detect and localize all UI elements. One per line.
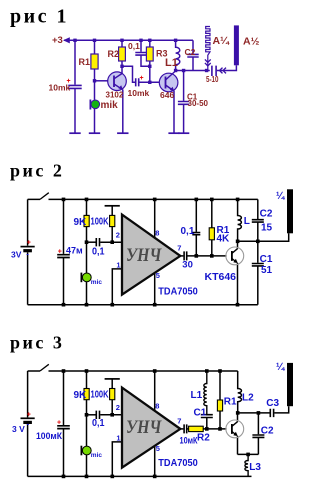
wire R1 top fig3 — [219, 371, 221, 400]
wire base KT646 fig2 — [187, 255, 226, 257]
wire R1 bottom to base node — [94, 69, 96, 81]
junction dots fig3 — [62, 369, 261, 478]
wire R1 top fig2 — [211, 199, 213, 227]
svg-text:0,1: 0,1 — [181, 226, 195, 237]
wire 10mk branch top — [74, 40, 76, 84]
svg-text:4K: 4K — [217, 234, 231, 245]
svg-text:C2: C2 — [260, 209, 273, 220]
wire C1 bottom — [183, 104, 185, 133]
svg-text:C1: C1 — [260, 254, 273, 265]
inductor L3 fig3 — [245, 454, 248, 476]
capacitor 10mk coupling plates — [136, 78, 139, 86]
svg-text:7: 7 — [177, 417, 181, 426]
switch fig2 — [40, 193, 49, 200]
capacitor 0,1 input plates — [96, 238, 99, 246]
capacitor C2 plates fig3 — [252, 435, 264, 437]
svg-text:8: 8 — [155, 229, 159, 238]
svg-text:8: 8 — [155, 402, 159, 411]
wire 100K top fig3 — [111, 379, 113, 389]
resistor R3 — [146, 47, 153, 61]
svg-text:TDA7050: TDA7050 — [158, 286, 198, 298]
svg-text:R1: R1 — [79, 57, 91, 67]
svg-text:A¼: A¼ — [213, 35, 231, 47]
svg-text:R2: R2 — [197, 432, 210, 443]
svg-text:R2: R2 — [108, 49, 120, 59]
wire C1 to base fig3 — [206, 418, 208, 429]
capacitor C1 plates — [178, 102, 189, 105]
wire input left fig3 — [87, 414, 96, 416]
svg-text:100K: 100K — [91, 217, 110, 228]
junction dots fig1 — [73, 39, 208, 84]
ground 10mk — [69, 132, 80, 134]
wire 10mk branch bottom — [74, 88, 76, 133]
svg-text:1: 1 — [116, 433, 120, 442]
capacitor C2 plates — [187, 54, 198, 57]
svg-text:+: + — [27, 411, 31, 418]
battery 3V fig3 — [21, 417, 35, 419]
wire mic bottom — [86, 282, 88, 305]
wire battery bottom fig3 — [27, 424, 29, 476]
transistor Q1 3102 — [108, 72, 127, 91]
wire battery bottom — [27, 252, 29, 304]
svg-text:3V: 3V — [11, 249, 22, 259]
wire R2 top — [121, 40, 123, 47]
capacitor 100mk plates — [57, 426, 70, 429]
svg-text:+: + — [140, 75, 144, 82]
wire C3 to antenna fig3 — [274, 406, 288, 413]
wire node fig3 — [238, 412, 270, 414]
svg-text:УНЧ: УНЧ — [126, 245, 162, 265]
svg-text:646: 646 — [160, 90, 174, 100]
svg-text:30: 30 — [182, 260, 193, 271]
svg-text:30-50: 30-50 — [188, 99, 209, 108]
battery 3V — [21, 246, 35, 248]
ground Q2 emitter — [168, 132, 179, 134]
wire KT646 collector fig2 — [237, 241, 239, 248]
resistor R1 — [91, 54, 98, 69]
svg-text:рис 1: рис 1 — [10, 6, 69, 28]
wire 0,1 right top — [195, 199, 197, 232]
svg-text:¼: ¼ — [276, 191, 285, 202]
wire C2 from rail — [192, 40, 194, 54]
antenna quarter bar fig3 — [287, 363, 293, 406]
wire 0,1 right bottom — [195, 235, 197, 256]
wire 5-10 to antenna — [217, 65, 237, 70]
svg-text:10мК: 10мК — [180, 435, 198, 446]
svg-text:5: 5 — [156, 444, 160, 453]
svg-text:¼: ¼ — [276, 362, 285, 373]
resistor R1 fig3 — [217, 400, 222, 411]
wire R1 top — [94, 40, 96, 54]
svg-text:L2: L2 — [242, 392, 254, 403]
svg-text:рис 3: рис 3 — [10, 333, 64, 353]
inductor L1 fig3 — [204, 371, 207, 414]
tbar 100K open end fig3 — [105, 378, 120, 380]
svg-text:10mk: 10mk — [128, 88, 150, 98]
svg-text:2: 2 — [116, 231, 120, 240]
svg-text:+: + — [27, 240, 31, 247]
ground C1 — [178, 132, 189, 134]
capacitor 47m plates — [57, 255, 70, 258]
svg-text:9K: 9K — [74, 217, 88, 228]
wire 9K top — [86, 199, 88, 215]
wire 9K bottom to mic — [86, 227, 88, 274]
svg-text:C2: C2 — [261, 425, 274, 436]
wire KT646 collector fig3 — [237, 413, 239, 422]
wire input right to pin2 — [100, 241, 122, 243]
svg-text:A½: A½ — [243, 36, 260, 48]
svg-text:0,1: 0,1 — [92, 247, 105, 258]
wire C2 top fig3 — [257, 413, 259, 434]
svg-text:рис 2: рис 2 — [10, 161, 64, 181]
capacitor C3 plates fig3 — [270, 409, 273, 417]
wire Q2 emitter — [173, 91, 175, 134]
svg-text:100мК: 100мК — [36, 431, 62, 442]
svg-text:15: 15 — [261, 222, 273, 233]
junction dots fig2 — [62, 198, 260, 307]
wire C1 top fig2 — [257, 241, 259, 262]
svg-text:1: 1 — [116, 260, 120, 269]
wire bottom rail fig2 — [28, 304, 258, 306]
svg-text:47м: 47м — [66, 246, 83, 256]
antenna A half bar — [234, 25, 239, 65]
wire 100mk top — [63, 371, 65, 425]
svg-text:L3: L3 — [249, 462, 261, 473]
wire R1 bottom fig2 — [211, 240, 213, 256]
svg-text:C2: C2 — [185, 47, 196, 57]
svg-text:5: 5 — [156, 271, 160, 280]
capacitor 10mK plates fig3 — [184, 424, 187, 433]
wire 100mk bottom — [63, 429, 65, 477]
wire pin5 fig3 — [154, 446, 156, 477]
svg-text:+: + — [58, 249, 62, 256]
svg-text:mik: mik — [101, 100, 119, 111]
arrow A quarter down chevrons — [205, 59, 211, 66]
svg-text:0,1: 0,1 — [92, 418, 105, 429]
svg-text:L1: L1 — [191, 390, 203, 401]
wire R3 top — [149, 40, 151, 47]
wire 0,1 cap bottom — [141, 55, 150, 66]
wire C2 bottom — [192, 57, 194, 71]
wire input left — [87, 241, 96, 243]
wire KT646 emitter fig2 — [237, 263, 239, 305]
resistor R1 fig2 — [209, 228, 214, 240]
svg-text:C1: C1 — [194, 408, 207, 419]
svg-text:-: - — [26, 250, 29, 259]
transistor Q2 646 — [159, 71, 178, 92]
resistor 100K fig3 — [110, 389, 115, 400]
wire collector node — [176, 70, 210, 72]
wire base node to Q1 — [95, 80, 108, 82]
microphone mik — [90, 100, 99, 110]
wire Q1 collector — [121, 66, 123, 73]
svg-text:3102: 3102 — [106, 91, 124, 100]
microphone mic fig3 — [81, 446, 91, 456]
wire pin7 out — [180, 255, 183, 257]
wire C1 bottom fig2 — [257, 266, 259, 305]
capacitor 30 plates — [184, 251, 187, 260]
inductor L fig2 — [238, 199, 242, 241]
antenna coil A quarter — [206, 27, 210, 71]
svg-text:L: L — [244, 216, 250, 227]
wire top rail fig2 — [28, 198, 258, 200]
svg-text:KT646: KT646 — [205, 271, 237, 283]
resistor R2 fig3 — [189, 426, 204, 431]
wire pin8 — [154, 199, 156, 238]
svg-text:TDA7050: TDA7050 — [158, 457, 198, 469]
wire 100K bottom fig3 — [111, 400, 113, 415]
ground Q1 emitter — [117, 132, 128, 134]
transistor KT646 fig3 — [226, 420, 244, 438]
wire pin1 — [112, 269, 122, 305]
svg-text:3 V: 3 V — [12, 424, 25, 434]
switch fig3 — [40, 364, 49, 371]
op-amp U1 UNCH fig2 — [122, 215, 180, 295]
wire battery top fig3 — [27, 371, 29, 417]
capacitor C1 plates fig2 — [252, 264, 264, 266]
capacitor 5-10 plates — [212, 66, 216, 76]
svg-text:C3: C3 — [266, 398, 279, 409]
svg-text:mic: mic — [91, 279, 103, 286]
svg-text:+: + — [67, 78, 71, 85]
wire pin1 fig3 — [112, 442, 122, 477]
wire 47m bottom — [63, 258, 65, 305]
svg-text:2: 2 — [116, 403, 120, 412]
svg-text:R1: R1 — [224, 397, 237, 408]
wire R3 bottom — [149, 61, 151, 82]
wire 47m top — [63, 199, 65, 254]
wire +3 supply rail — [64, 39, 193, 41]
op-amp U1 UNCH fig3 — [122, 388, 180, 468]
svg-text:7: 7 — [177, 244, 181, 253]
svg-text:5-10: 5-10 — [206, 74, 219, 84]
capacitor 0,1 plates — [135, 53, 146, 56]
wire pin5 — [154, 273, 156, 305]
wire C2 bottom — [257, 222, 259, 241]
svg-text:mic: mic — [91, 452, 103, 459]
wire collector node fig2 — [238, 233, 289, 241]
svg-text:L1: L1 — [165, 57, 178, 69]
svg-text:9K: 9K — [74, 390, 88, 401]
wire 9K top fig3 — [86, 371, 88, 389]
capacitor 10mk plates — [68, 85, 81, 88]
wire C1 top — [183, 71, 185, 101]
wire emitter node fig3 — [238, 453, 259, 455]
wire pin8 fig3 — [154, 371, 156, 411]
wire R1 bottom fig3 — [219, 411, 221, 429]
svg-text:100K: 100K — [91, 390, 110, 401]
wire battery top — [27, 199, 29, 245]
arrow 5-10 chevrons — [220, 68, 227, 74]
wire bottom rail fig3 — [28, 475, 252, 477]
wire base node down to mic — [94, 81, 96, 100]
svg-text:+3: +3 — [52, 35, 63, 46]
resistor 9K fig2 — [84, 215, 89, 226]
wire KT646 emitter fig3 — [237, 436, 239, 455]
microphone mic fig2 — [81, 273, 91, 283]
wire C2 bottom fig3 — [257, 437, 259, 454]
ground mic — [89, 132, 100, 134]
wire 9K bottom to mic fig3 — [86, 400, 88, 447]
tbar 100K open end — [105, 205, 120, 207]
inductor L2 fig3 — [238, 371, 242, 413]
antenna quarter bar fig2 — [287, 189, 293, 233]
wire Q1 emitter to ground — [122, 89, 124, 133]
wire 0,1 cap top — [140, 40, 142, 52]
svg-text:-: - — [27, 420, 30, 429]
wire mic to ground — [94, 109, 96, 134]
capacitor C2 plates fig2 — [252, 220, 264, 222]
wire cap to R2 fig3 — [187, 428, 188, 430]
wire collector to coupling cap — [122, 66, 135, 82]
capacitor C1 plates fig3 — [201, 415, 213, 418]
wire top rail fig3 — [28, 370, 238, 372]
wire mic bottom fig3 — [86, 455, 88, 477]
svg-text:51: 51 — [261, 265, 273, 276]
capacitor 0,1 input plates fig3 — [96, 411, 99, 419]
resistor 9K fig3 — [84, 389, 89, 400]
wire 100K bottom — [111, 227, 113, 243]
resistor 100K fig2 — [110, 215, 115, 226]
wire coupling cap to Q2 base — [139, 81, 159, 83]
wire R2 bottom — [121, 61, 123, 66]
resistor R2 — [119, 47, 126, 61]
wire R2 to base fig3 — [203, 428, 226, 430]
capacitor 0,1 right plates — [192, 233, 200, 235]
arrow +3 supply — [63, 37, 70, 43]
wire input right fig3 — [100, 414, 122, 416]
wire pin7 out fig3 — [180, 428, 183, 430]
svg-text:УНЧ: УНЧ — [126, 417, 162, 437]
wire C2 top — [257, 199, 259, 219]
transistor KT646 fig2 — [226, 247, 244, 265]
inductor L1 — [176, 40, 180, 70]
wire 100K top — [111, 206, 113, 216]
svg-text:+: + — [57, 420, 61, 427]
svg-text:0,1: 0,1 — [128, 41, 140, 51]
